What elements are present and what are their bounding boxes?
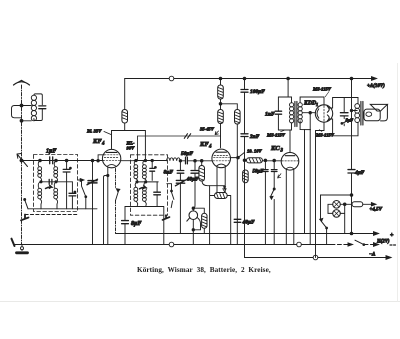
svg-text:90V: 90V (127, 146, 136, 151)
trimmer arrow (17, 154, 28, 167)
capacitor box1 lower right (69, 193, 76, 196)
lamp 1 (333, 201, 341, 209)
mid wire box2 (137, 181, 158, 183)
bypass line x195 (193, 161, 195, 208)
node arrow heater plus (374, 232, 379, 236)
svg-text:Körting, Wismar 38, Batteri: Körting, Wismar 38, Batterie, 2 Kreise, (137, 266, 271, 274)
capacitor KC3 bypass 2 (271, 170, 277, 172)
HL feed line y136 (138, 136, 221, 161)
svg-text:−A: −A (369, 253, 376, 258)
heater dashdot line tube1 (115, 169, 117, 189)
wire box2 grid line (134, 160, 166, 162)
svg-text:MS-115V: MS-115V (266, 133, 286, 138)
wire to minus arrow (364, 244, 374, 246)
svg-text:4: 4 (208, 145, 212, 150)
dashed bottom link box1 (25, 214, 77, 216)
capacitor 1uF series top (50, 157, 53, 164)
node dots box2 top (135, 159, 137, 161)
coil f4a (135, 182, 137, 187)
antenna symbol (14, 82, 30, 85)
bypass line x180.5 (179, 160, 181, 162)
svg-text:8nF: 8nF (164, 170, 174, 176)
lamp 2 (333, 210, 341, 218)
svg-text:KDD: KDD (303, 101, 317, 107)
wire KDD1 grids (302, 112, 315, 114)
wire minus A line (245, 245, 389, 258)
wire box1 bottom (28, 208, 97, 210)
bandfilter1 dashed box (34, 155, 78, 212)
coil f2a (38, 182, 40, 188)
lamp wires (328, 204, 345, 233)
svg-text:5µF: 5µF (346, 118, 354, 123)
svg-text:+: + (390, 233, 394, 239)
connector circle minus A (313, 255, 318, 260)
wire KC3 anode up (289, 130, 291, 153)
coil f3b (143, 161, 145, 166)
svg-text:2nF: 2nF (249, 134, 260, 140)
capacitor 100uF on x244.5 (244, 79, 246, 245)
capacitor grid tube2 (186, 157, 188, 164)
svg-text:MS-115V: MS-115V (312, 87, 332, 92)
wire ground bus (14, 244, 331, 246)
svg-text:KC: KC (270, 145, 280, 152)
mid wire and capacitor series (41, 181, 72, 183)
transformer interstage (278, 97, 291, 130)
break symbol on HL line (184, 134, 190, 139)
wire tube2 filaments (217, 167, 225, 193)
svg-text:1: 1 (316, 102, 318, 107)
capacitor 40uF (234, 219, 241, 222)
capacitor box2 upper (150, 168, 155, 171)
connector circle ground bus 2 (297, 242, 302, 247)
wire tank bottom (34, 109, 42, 121)
wire x103.5 (104, 176, 108, 245)
svg-text:100µF: 100µF (250, 89, 265, 95)
bandfilter2 dashed box (131, 155, 168, 215)
arrow into cathode resistor (223, 186, 226, 192)
coupling arrow box2 (140, 186, 146, 189)
svg-text:1nF: 1nF (265, 112, 275, 118)
svg-text:40µF: 40µF (242, 220, 255, 226)
wire box2 bottom (125, 207, 164, 245)
wire KC3 filaments down (286, 170, 294, 245)
coil f1b (54, 161, 56, 167)
capacitor 2nF (241, 134, 248, 137)
capacitor KC3 bypass 1 (263, 170, 269, 172)
link bracket (12, 106, 22, 118)
tube KC3 (281, 153, 299, 171)
resistor 4.5V (345, 203, 352, 205)
wire tank left top (22, 105, 32, 107)
ground tab box2 (163, 215, 170, 220)
svg-text:40µF: 40µF (186, 177, 199, 183)
svg-text:4: 4 (101, 142, 105, 147)
svg-text:KF: KF (92, 138, 102, 145)
wire grid leak to arrow (202, 181, 225, 186)
band switch box1 right (78, 179, 82, 181)
switch below (273, 188, 275, 190)
svg-text:3: 3 (280, 149, 284, 154)
arrow pot (278, 174, 281, 178)
trimmer capacitor on x92.5 (88, 181, 97, 183)
svg-text:Bl. 35V: Bl. 35V (86, 129, 102, 134)
wire ground bus dashed right (331, 244, 349, 246)
node arrow +A (372, 77, 377, 81)
wire tank left bottom (22, 120, 32, 122)
connector circle ground bus 1 (169, 242, 174, 247)
node dot grid2 (194, 160, 197, 163)
resistor cathode box (215, 193, 228, 199)
resistor anode tube1 (124, 79, 126, 110)
svg-text:1µF: 1µF (46, 149, 56, 155)
switch box1 left (25, 200, 28, 209)
B+ drop to transformer (287, 77, 290, 80)
coil f3a (134, 161, 136, 166)
capacitor 8uF (122, 221, 129, 224)
svg-text:10. 10V: 10. 10V (247, 149, 262, 154)
wires below KDD1 (305, 113, 325, 258)
svg-text:KF: KF (199, 141, 209, 148)
branch to lamps (321, 195, 352, 219)
switch heater minus (348, 243, 353, 246)
resistor on coupling line (243, 170, 249, 183)
svg-text:8µF: 8µF (131, 221, 141, 227)
wire grid line tube1 (20, 160, 103, 162)
wire antenna lead dash-dot (21, 85, 23, 245)
capacitor on x195 (191, 171, 199, 174)
center tap stub (352, 110, 358, 112)
coil f2b (54, 182, 56, 188)
label minus (390, 244, 396, 246)
connector circle top line (169, 76, 174, 81)
capacitor tank (39, 106, 46, 109)
node dot grid antenna (20, 159, 23, 162)
resistor screen (235, 110, 241, 125)
svg-text:+4,5V: +4,5V (370, 208, 383, 213)
capacitor box1 upper right (63, 169, 70, 172)
capacitor box2 lower (154, 192, 161, 195)
jack circle component (189, 211, 198, 220)
wire choke to cap (180, 160, 185, 162)
wire to resistor3 (221, 104, 238, 110)
tone line across primary (343, 98, 345, 119)
tube KF4 no2 (212, 149, 231, 168)
svg-text:H(2V): H(2V) (376, 240, 390, 245)
tube KF4 no1 (102, 149, 120, 167)
wire cap to tube2 (187, 160, 212, 162)
svg-text:+A(10V): +A(10V) (367, 84, 385, 89)
node dot tank bottom (20, 119, 23, 122)
resistors anode tube2 (219, 77, 222, 80)
resistor grid KC3 (245, 159, 247, 161)
hf choke (167, 158, 181, 161)
coupling arrow box1 (46, 186, 52, 189)
capacitor 4uF on B (348, 170, 355, 173)
wire x107.8 tube1 filament (107, 167, 109, 245)
switch antenna earth (12, 239, 15, 246)
wire x92.5 (92, 161, 94, 245)
coil f4b (144, 182, 146, 187)
ground tab box1 (21, 215, 29, 221)
capacitor 1nF (275, 111, 281, 114)
switch lamps (320, 219, 323, 222)
node dot tank top (20, 104, 23, 107)
wire B+ top line (125, 78, 374, 80)
band switch box2 right (167, 184, 174, 208)
wire tank top (34, 94, 42, 105)
coil f1a (38, 161, 40, 167)
speaker cone (370, 104, 387, 111)
coil antenna tank (31, 95, 36, 100)
node dots top coils (39, 159, 42, 162)
wire heater plus bus (116, 233, 376, 235)
vertical B line (351, 79, 353, 234)
ground symbol (21, 245, 23, 251)
wire grid2 out (230, 157, 238, 159)
resistor grid leak tube2 (199, 166, 205, 182)
wires KDD1 plates to output (329, 98, 358, 136)
faint page edge bottom (0, 301, 400, 303)
speaker driver (364, 109, 380, 121)
svg-text:MS-115V: MS-115V (315, 133, 335, 138)
capacitor A on x180.5 (177, 171, 184, 174)
svg-text:50µF: 50µF (181, 151, 193, 157)
faint page edge right (397, 63, 399, 302)
tube KDD1 (315, 105, 332, 122)
output transformer winding (355, 104, 360, 109)
wire x125 with 8uF cap (124, 207, 126, 245)
trimmer on x180.5 (176, 180, 184, 183)
svg-text:4µF: 4µF (354, 170, 365, 176)
resistor beside jack (202, 213, 207, 228)
svg-text:35-45V: 35-45V (199, 127, 215, 132)
